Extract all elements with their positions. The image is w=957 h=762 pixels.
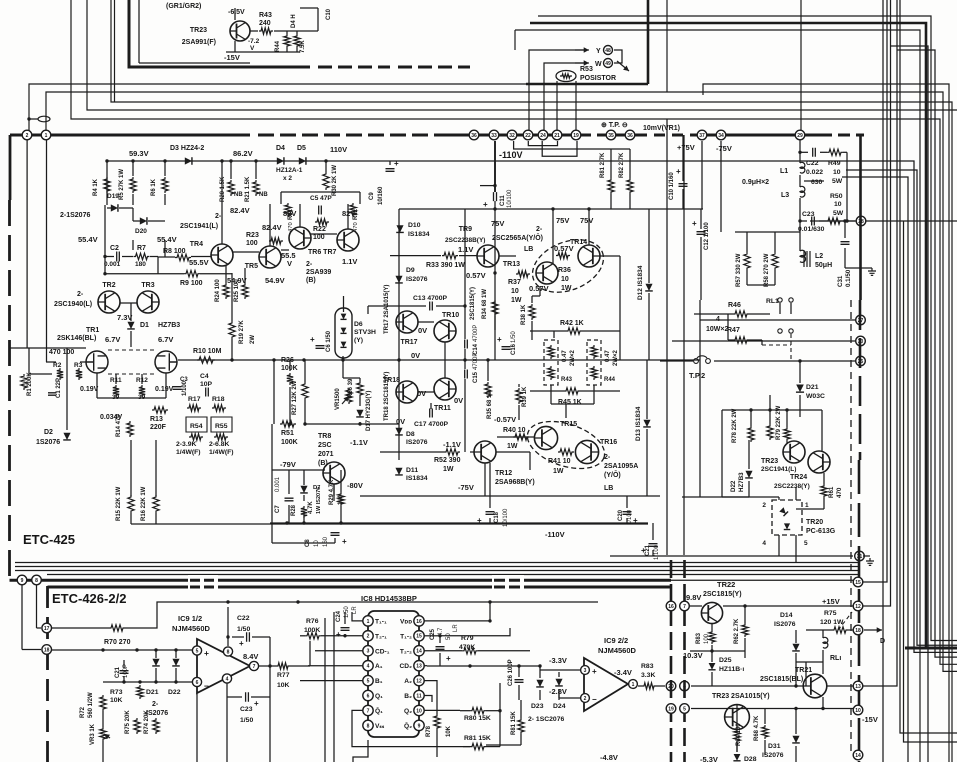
svg-text:TR20: TR20 — [806, 519, 823, 526]
wires R78 tops — [722, 409, 822, 411]
svg-text:R3: R3 — [74, 362, 83, 369]
svg-text:TR13: TR13 — [503, 261, 520, 268]
resistor R8 — [175, 254, 191, 260]
svg-text:-4.8V: -4.8V — [600, 753, 618, 762]
svg-text:29: 29 — [797, 133, 803, 139]
svg-text:8.4V: 8.4V — [243, 652, 258, 661]
svg-text:4: 4 — [367, 664, 370, 670]
transistor TR7 — [337, 229, 359, 251]
resistor riser TR23 — [784, 427, 790, 441]
vertical x667 drop — [666, 119, 668, 555]
svg-text:R62 2.7K: R62 2.7K — [734, 618, 740, 644]
svg-text:0V: 0V — [417, 389, 426, 398]
svg-text:(B): (B) — [318, 460, 328, 467]
svg-text:PC-613G: PC-613G — [806, 528, 836, 535]
wire to IC8 pin — [309, 641, 311, 666]
svg-text:R36: R36 — [558, 267, 571, 274]
svg-text:TR16: TR16 — [600, 439, 617, 446]
svg-text:55.4V: 55.4V — [78, 235, 98, 244]
svg-text:2-: 2- — [306, 261, 313, 268]
svg-text:10/160: 10/160 — [378, 186, 384, 205]
svg-text:-1.1V: -1.1V — [350, 438, 368, 447]
svg-text:2SK146(BL): 2SK146(BL) — [57, 335, 96, 342]
diode D21c — [152, 659, 160, 666]
svg-text:2SC2565A(Y/Ō): 2SC2565A(Y/Ō) — [492, 234, 543, 242]
wire tr21 base — [691, 685, 803, 687]
node 32 — [507, 130, 517, 140]
svg-text:2SC1815(Y): 2SC1815(Y) — [470, 287, 476, 320]
svg-text:D28: D28 — [744, 756, 757, 762]
svg-text:33: 33 — [491, 133, 497, 139]
svg-text:R33 390 1W: R33 390 1W — [426, 262, 465, 269]
right border lower — [859, 300, 862, 460]
svg-text:IC9 1/2: IC9 1/2 — [178, 614, 202, 623]
diode D10 — [396, 225, 404, 232]
svg-text:C15: C15 — [473, 371, 479, 383]
svg-text:L2: L2 — [815, 253, 823, 260]
node 24 — [538, 130, 548, 140]
svg-text:T.P.2: T.P.2 — [689, 371, 705, 380]
svg-text:+: + — [446, 654, 451, 663]
transistor TR14 — [578, 245, 600, 267]
node 1 — [41, 130, 51, 140]
svg-text:TR9: TR9 — [459, 226, 472, 233]
wire pin3 — [315, 650, 363, 652]
column 671 — [670, 560, 673, 762]
wire emitter bus — [226, 51, 300, 53]
bus line 4 — [87, 0, 957, 110]
svg-text:75V: 75V — [556, 216, 569, 225]
svg-text:6: 6 — [196, 680, 199, 686]
svg-text:R58 270 2W: R58 270 2W — [764, 253, 770, 287]
svg-text:+: + — [676, 167, 681, 176]
resistor R70 — [52, 627, 109, 629]
svg-text:6.7V: 6.7V — [158, 335, 173, 344]
svg-text:2-3.9K: 2-3.9K — [176, 441, 196, 448]
svg-text:B₂: B₂ — [404, 693, 412, 700]
svg-text:R44: R44 — [604, 377, 616, 383]
resistor R43 dashed box — [544, 340, 558, 385]
wire vdd — [424, 602, 490, 621]
svg-text:19: 19 — [668, 706, 674, 712]
wire pin5 — [300, 680, 363, 682]
svg-text:D21: D21 — [806, 384, 819, 391]
node 35 — [606, 130, 616, 140]
transistor TR3 — [137, 291, 159, 313]
bus thin f3 — [15, 570, 860, 572]
svg-text:R55: R55 — [215, 423, 228, 430]
svg-text:10: 10 — [561, 276, 569, 283]
svg-text:R77: R77 — [277, 672, 290, 679]
wires R46 R47 — [728, 313, 733, 315]
bus line 5 — [71, 0, 667, 119]
svg-text:R38 1K: R38 1K — [521, 304, 527, 325]
wires TR1 area — [10, 347, 87, 349]
svg-text:R61: R61 — [828, 486, 835, 498]
top right line B thick — [530, 23, 926, 648]
svg-text:IS2076: IS2076 — [774, 621, 796, 628]
svg-text:R21 1.5K: R21 1.5K — [245, 176, 251, 202]
svg-text:2W×2: 2W×2 — [613, 349, 619, 366]
svg-text:D23: D23 — [531, 703, 544, 710]
svg-text:R37: R37 — [508, 279, 521, 286]
svg-text:+: + — [641, 546, 646, 555]
svg-text:10: 10 — [833, 169, 841, 176]
svg-text:-6.5V: -6.5V — [228, 9, 245, 16]
wire Y arrow — [529, 50, 584, 134]
svg-text:5: 5 — [367, 679, 370, 685]
svg-text:2SC1940(L): 2SC1940(L) — [54, 301, 92, 308]
diode D23 — [536, 680, 544, 687]
svg-text:⊕ T.P. ⊖: ⊕ T.P. ⊖ — [601, 122, 628, 129]
svg-text:10: 10 — [511, 288, 519, 295]
wire node2 down — [26, 140, 28, 348]
diode D5 — [299, 157, 306, 165]
svg-text:C6 1/50: C6 1/50 — [326, 330, 332, 352]
resistor R77 — [276, 663, 290, 669]
svg-text:R73: R73 — [110, 689, 123, 696]
svg-text:D3 HZ24-2: D3 HZ24-2 — [170, 145, 204, 152]
svg-text:15: 15 — [855, 580, 861, 586]
svg-text:55.4V: 55.4V — [157, 235, 177, 244]
svg-text:R75: R75 — [824, 610, 837, 617]
wire pin8 riser — [227, 607, 229, 646]
node 34 — [716, 130, 726, 140]
svg-text:7: 7 — [683, 604, 686, 610]
svg-text:VR3 1K: VR3 1K — [90, 723, 96, 745]
svg-text:(Y): (Y) — [354, 337, 363, 344]
svg-text:NJM4560D: NJM4560D — [598, 646, 637, 655]
transistor TR12 — [474, 441, 496, 463]
svg-text:TR22: TR22 — [717, 580, 735, 589]
svg-text:IC8 HD14538BP: IC8 HD14538BP — [361, 594, 417, 603]
svg-text:TR18: TR18 — [383, 377, 400, 384]
wires ic8 bottom — [353, 740, 368, 762]
svg-text:-80V: -80V — [347, 481, 363, 490]
svg-text:Vₛₛ: Vₛₛ — [375, 723, 385, 730]
node 22 — [523, 130, 533, 140]
diode D11 — [395, 468, 403, 475]
wires L1 area — [799, 140, 801, 163]
diode D4 — [277, 157, 284, 165]
svg-text:LR: LR — [352, 606, 358, 614]
wire C24 to pin1 — [352, 612, 363, 621]
svg-text:R81 15K: R81 15K — [511, 711, 517, 735]
wires opamp2 — [540, 669, 581, 671]
svg-text:0V: 0V — [396, 417, 405, 426]
svg-text:2: 2 — [26, 133, 29, 139]
right corner 928 — [891, 46, 929, 762]
svg-text:+: + — [342, 537, 347, 546]
svg-text:10W×2: 10W×2 — [706, 326, 728, 333]
transistor TR2 — [98, 291, 120, 313]
svg-text:C21: C21 — [115, 666, 121, 678]
dashed TR1 box — [108, 349, 155, 351]
svg-text:120 1W: 120 1W — [820, 619, 844, 626]
svg-text:1W: 1W — [553, 468, 564, 475]
svg-text:POSISTOR: POSISTOR — [580, 75, 616, 82]
svg-text:LB: LB — [524, 246, 533, 253]
dashed pair ellipse TR15 TR16 — [521, 413, 610, 478]
wires opamp1 inputs — [52, 649, 192, 651]
right vertical 903 — [904, 221, 957, 742]
svg-text:3.3K: 3.3K — [641, 672, 655, 679]
svg-text:V: V — [250, 45, 255, 52]
svg-text:IS2076: IS2076 — [762, 752, 784, 759]
svg-text:2SA968B(Y): 2SA968B(Y) — [495, 479, 535, 486]
box 82V network — [281, 191, 360, 193]
svg-text:2SC1815(BL): 2SC1815(BL) — [760, 676, 803, 683]
fet TR1 left — [86, 351, 108, 373]
drop x702 721 — [701, 141, 703, 209]
svg-text:R81 15K: R81 15K — [464, 735, 491, 742]
left column x722 — [721, 410, 723, 497]
svg-text:C24: C24 — [336, 610, 342, 622]
svg-text:0.57V: 0.57V — [529, 284, 549, 293]
svg-text:T₁-₂: T₁-₂ — [400, 633, 412, 640]
bus line 2 continuation — [721, 92, 957, 671]
svg-text:2SC1815(Y): 2SC1815(Y) — [703, 591, 742, 598]
svg-text:10P: 10P — [200, 381, 213, 388]
resistor R10 — [197, 357, 215, 363]
svg-text:0.47: 0.47 — [605, 350, 611, 362]
svg-text:TR24: TR24 — [790, 474, 807, 481]
wire pin10 — [424, 709, 460, 711]
svg-text:D9: D9 — [406, 267, 415, 274]
dashed RL1 drop — [790, 334, 792, 361]
svg-text:0.01/630: 0.01/630 — [798, 226, 825, 233]
drop x543 jog — [542, 141, 577, 156]
svg-text:36: 36 — [471, 133, 477, 139]
riser TR24 — [821, 410, 823, 451]
top block inner border — [138, 0, 140, 63]
svg-text:-3.3V: -3.3V — [549, 656, 567, 665]
svg-text:10K: 10K — [277, 682, 290, 689]
svg-text:W: W — [595, 61, 602, 68]
bus line 1 continuation — [703, 84, 949, 762]
svg-text:470: 470 — [836, 487, 843, 498]
rail -110V bottom — [270, 522, 648, 524]
svg-text:CD₂: CD₂ — [400, 663, 413, 670]
svg-text:HZ11B·ı: HZ11B·ı — [719, 666, 744, 673]
svg-text:180: 180 — [135, 261, 146, 268]
svg-text:1W: 1W — [561, 285, 572, 292]
svg-text:B₁: B₁ — [375, 678, 383, 685]
svg-text:10: 10 — [834, 201, 842, 208]
svg-text:1/50: 1/50 — [511, 331, 517, 343]
svg-text:7: 7 — [253, 664, 256, 670]
resistor R54 box — [186, 417, 207, 432]
svg-text:HZ7B3: HZ7B3 — [738, 472, 745, 492]
svg-text:A₂: A₂ — [404, 678, 412, 685]
svg-text:HZ7B3: HZ7B3 — [158, 322, 180, 329]
svg-text:0.57V: 0.57V — [554, 244, 574, 253]
right vertical 883 — [882, 0, 884, 762]
svg-text:-110V: -110V — [545, 530, 565, 539]
svg-text:-79V: -79V — [280, 460, 296, 469]
svg-text:A₁: A₁ — [375, 663, 383, 670]
svg-text:4: 4 — [226, 676, 229, 682]
svg-text:1: 1 — [632, 682, 635, 688]
top block border — [129, 0, 258, 67]
node 5b — [680, 704, 690, 714]
svg-text:R18: R18 — [212, 396, 225, 403]
svg-text:CD-₁: CD-₁ — [375, 648, 390, 655]
svg-text:R5 27K 1W: R5 27K 1W — [119, 169, 125, 200]
svg-text:T₂-₂: T₂-₂ — [400, 648, 412, 655]
svg-text:R39 1K: R39 1K — [522, 386, 528, 407]
optocoupler TR20 box — [772, 500, 802, 535]
svg-text:D20: D20 — [135, 228, 147, 235]
diode D9 — [395, 276, 403, 283]
bus line 2 — [46, 92, 721, 134]
wire q1 wrap — [352, 710, 470, 746]
rail mid drops — [230, 358, 233, 361]
svg-text:TR23: TR23 — [190, 27, 207, 34]
svg-text:R56 39: R56 39 — [348, 378, 354, 398]
svg-text:19: 19 — [573, 133, 579, 139]
svg-text:R42 1K: R42 1K — [560, 320, 584, 327]
resistor R81c — [470, 743, 486, 749]
svg-text:+: + — [483, 200, 488, 209]
svg-text:ETC-425: ETC-425 — [23, 532, 75, 547]
svg-text:x 2: x 2 — [283, 175, 292, 182]
svg-text:R23: R23 — [246, 232, 259, 239]
svg-text:C2: C2 — [110, 245, 119, 252]
svg-text:W03C: W03C — [806, 393, 825, 400]
svg-text:D21: D21 — [146, 689, 159, 696]
svg-text:+75V: +75V — [677, 143, 695, 152]
svg-text:-75V: -75V — [458, 483, 474, 492]
svg-text:+: + — [497, 335, 502, 344]
mid right corners — [842, 161, 957, 652]
node 16b — [666, 601, 676, 611]
svg-text:50μH: 50μH — [815, 262, 832, 269]
svg-text:6.7V: 6.7V — [105, 335, 120, 344]
svg-text:220F: 220F — [150, 424, 167, 431]
svg-text:R9 100: R9 100 — [180, 280, 203, 287]
svg-text:5W: 5W — [833, 210, 844, 217]
bus line 5 continuation — [667, 119, 957, 664]
wire bottom resistors — [130, 440, 132, 496]
svg-text:2: 2 — [584, 696, 587, 702]
svg-text:IS2076: IS2076 — [406, 439, 428, 446]
right vertical 890 — [863, 0, 891, 606]
resistor R55 box — [211, 417, 232, 432]
svg-text:R6 1K: R6 1K — [151, 178, 157, 196]
bus thick f6 — [48, 586, 672, 589]
svg-text:NB: NB — [259, 192, 268, 198]
svg-text:R74 20K: R74 20K — [144, 710, 150, 734]
svg-text:R17: R17 — [188, 396, 201, 403]
wires TR15 area — [530, 330, 566, 332]
svg-text:160: 160 — [323, 536, 329, 547]
bus dash break 2 — [492, 575, 524, 590]
svg-text:+: + — [633, 516, 638, 525]
svg-text:2W: 2W — [250, 335, 256, 344]
svg-text:82.4V: 82.4V — [230, 206, 250, 215]
node 2 — [22, 130, 32, 140]
transistor TR9 — [477, 245, 499, 267]
wire R53 right — [575, 81, 577, 134]
svg-text:470: 470 — [288, 222, 294, 232]
wires tr12 area — [484, 463, 486, 496]
svg-text:D31: D31 — [768, 743, 781, 750]
svg-text:5: 5 — [683, 706, 686, 712]
bus left edge — [9, 135, 12, 200]
svg-text:D5: D5 — [297, 145, 306, 152]
svg-text:6: 6 — [367, 693, 370, 699]
svg-text:C9: C9 — [369, 192, 375, 200]
svg-text:59.3V: 59.3V — [129, 149, 149, 158]
svg-text:1: 1 — [367, 619, 370, 625]
svg-text:R45 1K: R45 1K — [558, 399, 582, 406]
rail 8.4V — [125, 602, 598, 628]
svg-text:C22: C22 — [806, 160, 819, 167]
svg-text:5W: 5W — [832, 178, 843, 185]
svg-text:240: 240 — [259, 20, 271, 27]
svg-text:C31: C31 — [837, 275, 844, 287]
svg-text:R79: R79 — [461, 635, 474, 642]
svg-text:C23: C23 — [240, 706, 253, 713]
wires VR1 net — [342, 356, 344, 360]
transistor TR5 — [259, 246, 281, 268]
svg-text:4: 4 — [762, 540, 766, 547]
wire q2b — [424, 696, 432, 703]
node 18b — [42, 645, 52, 655]
wire R43 net — [250, 30, 258, 32]
svg-text:13: 13 — [416, 664, 422, 670]
svg-text:10: 10 — [855, 708, 861, 714]
svg-text:470: 470 — [353, 222, 359, 232]
node 4b — [680, 681, 690, 691]
svg-text:−: − — [592, 695, 597, 704]
svg-text:2: 2 — [762, 502, 766, 509]
node 36a — [469, 130, 479, 140]
wire 8 drop — [36, 585, 38, 628]
svg-text:12: 12 — [416, 679, 422, 685]
nodes right col — [853, 577, 863, 587]
svg-text:C11: C11 — [500, 195, 506, 206]
svg-text:+: + — [204, 648, 209, 658]
svg-text:100K: 100K — [281, 365, 298, 372]
svg-text:+: + — [336, 630, 341, 639]
svg-text:D8: D8 — [406, 431, 415, 438]
rail mid 0V — [178, 359, 700, 361]
svg-text:8: 8 — [35, 578, 38, 584]
svg-text:0.001: 0.001 — [275, 476, 281, 492]
svg-text:75V: 75V — [580, 216, 593, 225]
svg-text:R50: R50 — [830, 193, 843, 200]
svg-text:48: 48 — [605, 48, 611, 54]
ic8 pins right — [414, 616, 424, 626]
svg-text:0.19V: 0.19V — [155, 386, 174, 393]
bus thin f4 — [47, 574, 860, 576]
diode D31 — [792, 736, 800, 743]
svg-text:100K: 100K — [281, 439, 298, 446]
svg-text:R19 27K: R19 27K — [239, 320, 245, 344]
node 8 — [32, 575, 42, 585]
svg-text:3: 3 — [584, 668, 587, 674]
bus line 1 — [29, 84, 648, 134]
svg-text:37: 37 — [699, 133, 705, 139]
svg-text:3: 3 — [367, 649, 370, 655]
svg-text:11: 11 — [416, 693, 422, 699]
coil RL1b — [823, 637, 828, 648]
wire node29 riser — [800, 0, 802, 130]
svg-text:(GR1/GR2): (GR1/GR2) — [166, 3, 201, 10]
svg-text:LR: LR — [453, 624, 459, 632]
